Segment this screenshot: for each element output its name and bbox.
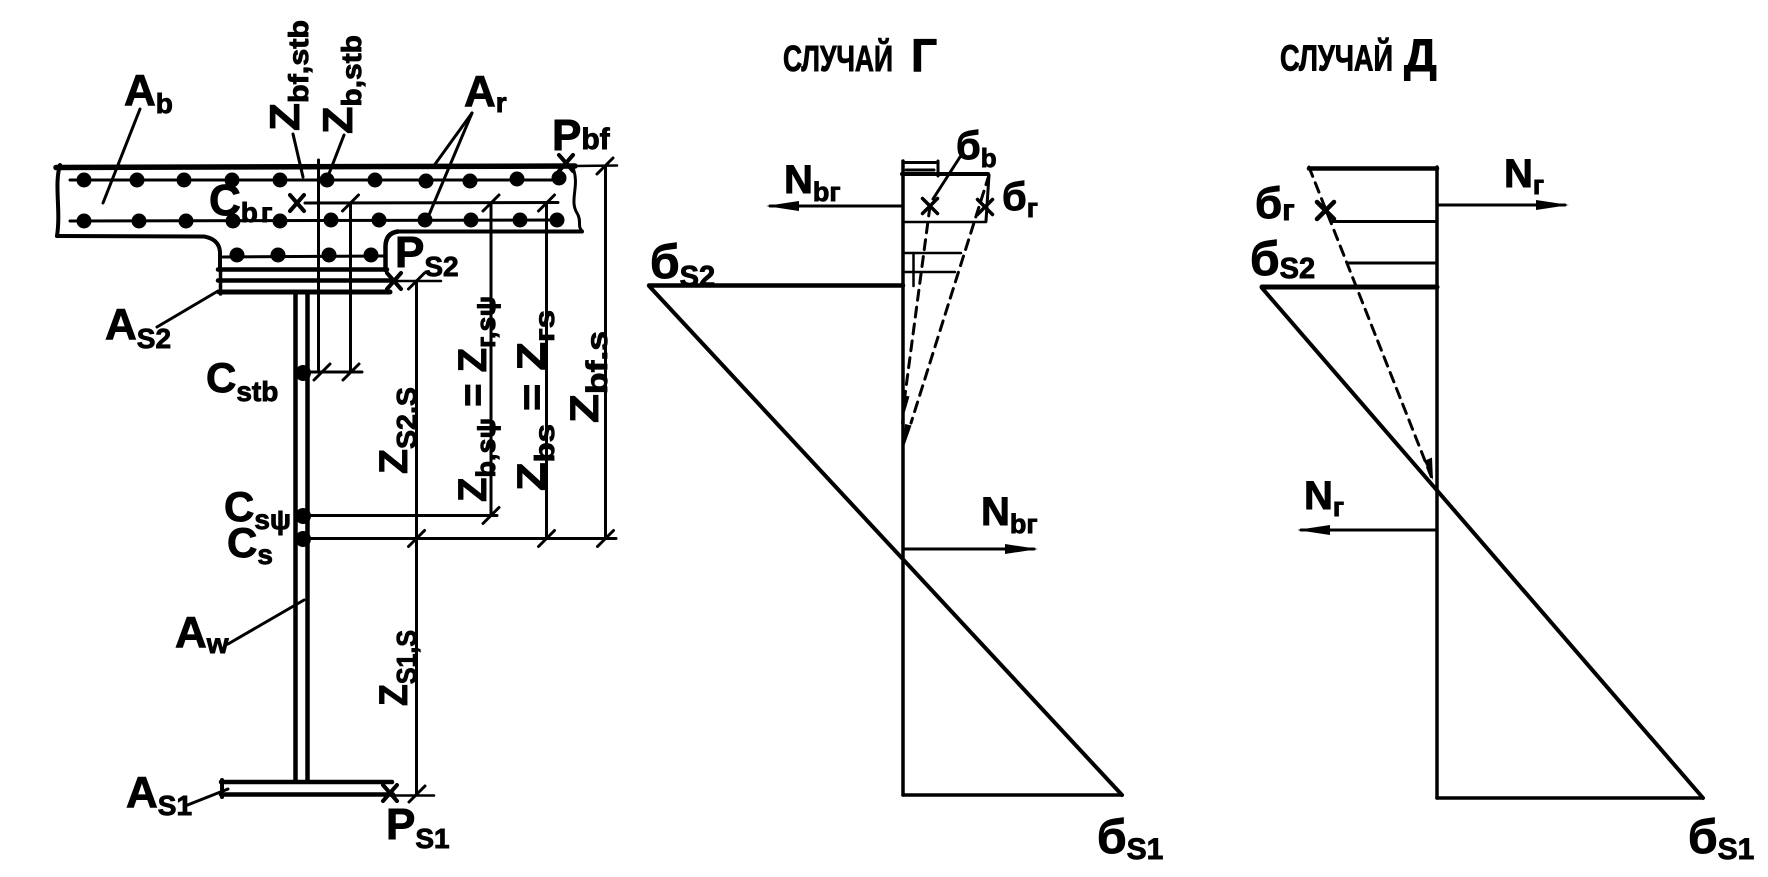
svg-text:бS2: бS2 — [1250, 233, 1315, 286]
case G N_br upper arrow — [766, 201, 902, 211]
case D N_r upper arrow — [1437, 200, 1569, 210]
centroid dot C_s-psi — [295, 508, 311, 524]
concrete slab top edge — [56, 166, 617, 168]
case D steel stress hypotenuse — [1262, 288, 1703, 798]
case G steel stress hypotenuse — [650, 287, 1122, 795]
leader Z_bf,stb — [293, 134, 303, 177]
case G cross marker sigma_b — [923, 199, 938, 214]
svg-text:Cbг: Cbг — [209, 176, 273, 228]
case D stress block top edge — [1309, 166, 1437, 171]
cross marker P_S2 — [387, 273, 401, 289]
case G flange step vertical — [912, 253, 915, 286]
case G stress block top edge — [902, 172, 988, 176]
concrete slab right break edge — [573, 168, 582, 231]
case D cross marker sigma_r — [1317, 202, 1334, 219]
case G dashed line from sigma_b — [905, 206, 930, 395]
case G flange level line 1 — [903, 252, 961, 255]
case G sigma_S2 level line — [649, 283, 903, 288]
case D level line 2 — [1348, 262, 1437, 265]
concrete slab bottom edge right — [397, 230, 582, 234]
leader A_r — [426, 113, 472, 222]
case G bottom edge — [903, 793, 1122, 797]
svg-text:ZS2.S: ZS2.S — [372, 387, 422, 474]
case G apex arrowheads — [901, 395, 912, 451]
case G N_br lower arrow — [903, 544, 1038, 554]
dimension line Z_S2,S / Z_S1,S vertical — [415, 281, 418, 794]
svg-text:бS1: бS1 — [1097, 811, 1163, 866]
case D level line 1 — [1331, 220, 1437, 223]
svg-text:Zbf.s: Zbf.s — [563, 331, 614, 423]
case D axis line — [1435, 167, 1439, 798]
concrete slab bottom edge left — [57, 234, 204, 239]
top flange plates left edge — [219, 270, 223, 294]
svg-text:Aw: Aw — [175, 608, 229, 659]
rebar row 1 line — [70, 179, 561, 182]
svg-text:ZS1,S: ZS1,S — [372, 630, 422, 706]
case G axis line — [901, 161, 905, 795]
haunch left edge — [204, 237, 220, 270]
svg-text:Zbs = Zгs: Zbs = Zгs — [510, 310, 560, 491]
concrete slab left edge — [57, 165, 60, 236]
leader A_S2 — [157, 291, 218, 327]
case G sigma_b leader — [933, 157, 960, 199]
svg-text:бг: бг — [1002, 175, 1038, 223]
svg-text:AS1: AS1 — [126, 768, 192, 821]
svg-text:СЛУЧАЙ: СЛУЧАЙ — [1280, 37, 1393, 79]
case G flange level line 2 — [903, 271, 955, 274]
dimension line Z_b,s-psi vertical — [490, 203, 493, 516]
rebar row 2 dots — [77, 213, 565, 229]
svg-text:бг: бг — [1255, 179, 1295, 228]
svg-text:PS2: PS2 — [395, 228, 459, 282]
svg-text:СЛУЧАЙ: СЛУЧАЙ — [783, 37, 893, 79]
level line C_stb — [298, 371, 362, 374]
dimension tick marks — [314, 158, 614, 802]
svg-text:Nг: Nг — [1304, 474, 1344, 522]
svg-text:бb: бb — [956, 124, 997, 173]
svg-text:Zb,sψ = Zг,sψ: Zb,sψ = Zг,sψ — [451, 296, 501, 502]
centroid dot C_stb — [295, 365, 311, 381]
svg-text:бS2: бS2 — [650, 236, 715, 293]
leader A_w — [228, 600, 304, 644]
svg-text:AS2: AS2 — [105, 300, 171, 354]
centroid dot C_s — [295, 531, 311, 547]
cross marker C_br — [290, 195, 304, 211]
case G cross marker sigma_r — [978, 200, 993, 215]
case D dashed line — [1309, 167, 1433, 481]
level line C_br — [305, 201, 558, 205]
case G top small rectangle — [903, 161, 938, 176]
haunch rebar dots — [230, 248, 379, 263]
case D bottom edge — [1437, 796, 1703, 800]
svg-text:Ar: Ar — [464, 67, 507, 118]
top flange plate line B — [218, 278, 441, 283]
case D sigma_S2 level line — [1262, 285, 1437, 290]
leader A_S1 — [185, 789, 228, 806]
cross marker P_S1 — [383, 785, 397, 801]
case G stress block right edge — [986, 175, 989, 221]
dimension line Z_bf,stb vertical — [317, 160, 320, 372]
svg-text:Nbг: Nbг — [981, 490, 1038, 539]
top flange plate line C — [219, 290, 390, 295]
case D N_r lower arrow — [1297, 525, 1437, 535]
leader Z_b,stb — [325, 135, 344, 184]
svg-text:Nг: Nг — [1504, 152, 1544, 200]
bottom flange A_S1 — [221, 780, 434, 797]
case G dashed line from sigma_r — [911, 175, 989, 423]
rebar row 2 line — [70, 220, 560, 221]
dimension line Z_bs vertical — [545, 203, 548, 539]
haunch bottom edge — [218, 267, 387, 272]
svg-text:бS1: бS1 — [1688, 811, 1754, 866]
haunch rebar line — [223, 256, 384, 257]
cross marker P_bf — [559, 155, 573, 171]
svg-text:Zbf,stb: Zbf,stb — [261, 20, 314, 131]
rebar row 1 dots — [77, 171, 567, 189]
level line C_s-psi — [300, 514, 497, 517]
svg-text:Ab: Ab — [124, 66, 173, 119]
leader A_b — [103, 109, 140, 203]
svg-text:Д: Д — [1404, 29, 1437, 81]
svg-text:Nbг: Nbг — [784, 158, 841, 207]
haunch right edge — [386, 232, 399, 271]
case G C_br level line — [903, 221, 986, 224]
svg-text:PS1: PS1 — [386, 800, 450, 854]
svg-text:Pbf: Pbf — [552, 111, 611, 160]
svg-text:Cstb: Cstb — [206, 354, 278, 407]
svg-text:Zb,stb: Zb,stb — [314, 35, 367, 134]
dimension line Z_bf,s vertical — [604, 166, 607, 539]
case D dashed arrowhead — [1424, 458, 1433, 481]
steel web — [296, 294, 308, 780]
dimension line Z_b,stb vertical — [349, 203, 352, 372]
level line C_s — [300, 537, 616, 540]
svg-text:Г: Г — [911, 30, 937, 82]
